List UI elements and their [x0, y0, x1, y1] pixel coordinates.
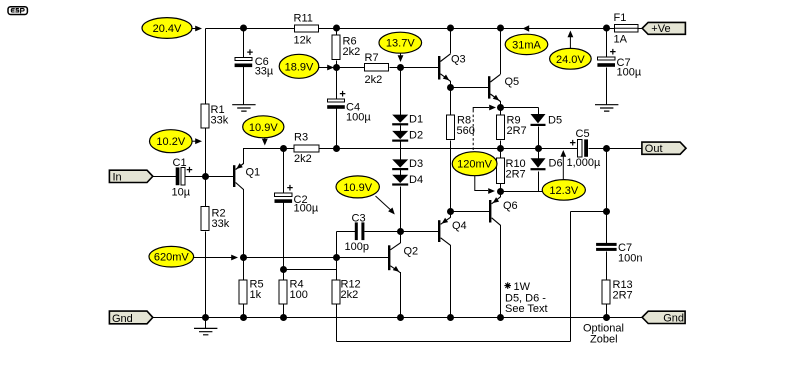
ground symbol below C6 — [232, 105, 255, 111]
svg-text:D6: D6 — [549, 158, 563, 170]
svg-text:560: 560 — [457, 125, 475, 137]
note: D5/D6 rating — [504, 281, 547, 315]
junction: R8 / Q4 emitter / Q6 base — [447, 208, 454, 215]
capacitor C7 100n Zobel — [596, 242, 642, 265]
node 13.7V callout — [398, 53, 404, 62]
wire: R5 leads — [243, 258, 245, 318]
wire: D5 bottom lead — [538, 127, 540, 149]
svg-text:10.2V: 10.2V — [156, 136, 185, 148]
wire: Q1 emitter drop — [243, 148, 245, 164]
wire: R1 bottom / R2 top column — [205, 129, 207, 207]
resistor R1 33k — [201, 104, 229, 128]
svg-text:2R7: 2R7 — [507, 125, 527, 137]
current 31mA — [505, 34, 548, 54]
wire: Q5 collector drop — [500, 28, 502, 74]
wire: ground stem below rail — [205, 318, 207, 329]
svg-text:F1: F1 — [614, 12, 627, 24]
transistor Q3 (NPN) — [438, 54, 466, 82]
svg-text:12k: 12k — [294, 35, 312, 47]
wire: +V top rail — [206, 28, 643, 30]
svg-text:D2: D2 — [409, 130, 423, 142]
wire: Q1 collector drop — [243, 189, 245, 258]
junction: ground rail / Q6 collector — [497, 314, 504, 321]
transistor Q2 (NPN) — [388, 243, 418, 273]
svg-text:R7: R7 — [365, 52, 379, 64]
diode D1 — [392, 114, 423, 126]
wire: D6 leads — [538, 149, 540, 192]
node 10.9V (Q1 emitter) — [243, 116, 284, 138]
svg-text:10.9V: 10.9V — [249, 122, 278, 134]
wire: Q2 collector drop — [400, 231, 402, 243]
svg-text:100n: 100n — [618, 253, 642, 265]
svg-text:120mV: 120mV — [457, 159, 493, 171]
svg-text:C5: C5 — [576, 128, 590, 140]
svg-text:Q3: Q3 — [451, 54, 466, 66]
junction: ground rail / R13 — [603, 314, 610, 321]
svg-text:D1: D1 — [409, 114, 423, 126]
svg-text:+: + — [186, 164, 192, 176]
junction: rail / Q5 collector — [497, 25, 504, 32]
wire: feedback return to output — [337, 212, 607, 342]
wire: Q6 base row — [451, 211, 490, 213]
node 18.9V callout — [318, 65, 334, 71]
junction: rail / fuse / C7 — [603, 25, 610, 32]
svg-text:10µ: 10µ — [172, 187, 191, 199]
svg-text:100µ: 100µ — [294, 203, 319, 215]
junction: ground rail / Q4 collector — [447, 314, 454, 321]
resistor R4 100 — [279, 279, 308, 305]
node 12.3V callout — [560, 150, 566, 179]
wire: C2 leads — [283, 149, 285, 270]
wire: C2/R4 node to R12 column — [284, 269, 337, 271]
wire: C5 to Out terminal — [589, 148, 643, 150]
junction: rail / Q3 collector — [447, 25, 454, 32]
svg-text:100: 100 — [290, 289, 308, 301]
svg-text:R11: R11 — [294, 13, 313, 25]
wire: diode chain column — [400, 68, 402, 232]
svg-text:Q5: Q5 — [505, 76, 520, 88]
wire: C3 leads and R12 top column — [337, 232, 401, 281]
node 120mV — [452, 152, 497, 176]
node 20.4V callout — [192, 26, 202, 32]
junction: output rail / R9 / R10 — [497, 145, 504, 152]
wire: output rail — [244, 148, 578, 150]
capacitor C5 1,000µ — [567, 128, 602, 169]
svg-text:R3: R3 — [294, 132, 308, 144]
note: Optional Zobel — [583, 323, 624, 346]
svg-text:+: + — [570, 138, 576, 150]
wire: C7 filter leads — [606, 29, 608, 105]
svg-text:1W: 1W — [514, 281, 531, 293]
svg-text:12.3V: 12.3V — [549, 185, 578, 197]
resistor R12 2k2 — [332, 279, 361, 305]
wire: Q3 collector drop — [450, 28, 452, 54]
junction: C2 / R4 node — [280, 266, 287, 273]
wire: R6 leads — [336, 29, 338, 68]
junction: Q1 collector / R5 / Q2 base row — [240, 254, 247, 261]
svg-text:100µ: 100µ — [617, 66, 642, 78]
junction: ground rail / R2 — [202, 314, 209, 321]
node 10.9V callout (bias node) — [376, 196, 395, 215]
junction: rail / C6 — [240, 25, 247, 32]
resistor R10 2R7 — [497, 158, 526, 183]
svg-text:D4: D4 — [409, 174, 423, 186]
svg-text:Q4: Q4 — [452, 220, 467, 232]
resistor R11 12k — [294, 13, 319, 47]
wire: C6 leads — [243, 29, 245, 105]
svg-text:Q2: Q2 — [404, 246, 419, 258]
resistor R6 2k2 — [332, 35, 360, 60]
node 13.7V — [379, 32, 422, 53]
svg-text:+Ve: +Ve — [651, 23, 670, 35]
node 120mV callout pointers — [473, 105, 496, 194]
junction: ground rail / Q2 emitter — [397, 314, 404, 321]
wire: Q1 collector to Q2 base row — [244, 257, 389, 259]
node 24.0V — [550, 48, 592, 69]
junction: output rail / C4 — [333, 145, 340, 152]
svg-text:10.9V: 10.9V — [343, 182, 372, 194]
transistor Q5 (NPN) — [488, 74, 519, 101]
wire: Q6 collector drop — [500, 225, 502, 318]
svg-text:1A: 1A — [614, 34, 628, 46]
junction: Q5 emitter / R9 / D5 — [497, 104, 504, 111]
terminal: +Ve — [642, 22, 685, 35]
capacitor C4 100µ — [327, 89, 371, 124]
diode D2 — [392, 130, 423, 142]
node 10.2V — [150, 130, 193, 153]
transistor Q4 (PNP) — [438, 217, 467, 245]
terminal: Gnd (left) — [109, 311, 152, 325]
wire: Q4 emitter drop — [450, 211, 452, 218]
capacitor C6 33µ — [235, 47, 274, 78]
svg-text:Q6: Q6 — [503, 200, 518, 212]
node 10.2V callout — [192, 138, 202, 144]
svg-text:100p: 100p — [345, 241, 369, 253]
svg-text:In: In — [113, 172, 122, 184]
wire: R4 leads — [283, 270, 285, 318]
wire: R10 leads — [500, 149, 502, 192]
wire: Q5 emitter node to D5 — [501, 108, 539, 115]
terminal: Gnd (right) — [642, 311, 685, 324]
wire: Q4 collector drop — [450, 245, 452, 318]
resistor R3 2k2 — [294, 132, 319, 166]
wire: R8 leads — [450, 88, 452, 212]
junction: output rail / D5 / D6 — [535, 145, 542, 152]
svg-text:13.7V: 13.7V — [386, 38, 415, 50]
resistor R8 560 — [447, 115, 475, 140]
wire: Q2 emitter drop — [400, 272, 402, 318]
ground symbol below C7 filter — [595, 105, 618, 111]
svg-text:Gnd: Gnd — [663, 312, 684, 324]
junction: output rail / C2 — [280, 145, 287, 152]
wire: R1 top column — [205, 29, 207, 105]
capacitor C2 100µ — [275, 183, 319, 215]
junction: output drop / feedback / Zobel — [603, 208, 610, 215]
resistor R7 2k2 — [365, 52, 389, 86]
diode D5 — [531, 114, 563, 127]
junction: rail / R6 — [333, 25, 340, 32]
wire: Q3 emitter drop — [450, 81, 452, 88]
junction: R10 / D6 / Q6 emitter — [497, 188, 504, 195]
svg-text:Q1: Q1 — [246, 167, 261, 179]
svg-text:18.9V: 18.9V — [285, 61, 314, 73]
wire: input to Q1 base — [153, 176, 234, 178]
junction: C3 / R12 top — [333, 254, 340, 261]
wire: Q4 base row — [401, 231, 439, 233]
svg-text:D3: D3 — [409, 158, 423, 170]
diode D4 — [392, 174, 423, 186]
wire: C7 Zobel to R13 — [606, 252, 608, 318]
wire: Q3 emitter to Q5 base — [451, 87, 489, 89]
svg-text:2k2: 2k2 — [365, 74, 383, 86]
wire: Q5 emitter drop — [500, 101, 502, 108]
svg-text:33k: 33k — [212, 218, 230, 230]
node 620mV — [149, 246, 194, 267]
ground symbol on ground rail — [194, 328, 217, 334]
resistor R13 2R7 — [602, 279, 633, 304]
wire: C4 leads — [336, 68, 338, 149]
wire: R9 leads — [500, 108, 502, 149]
ESP logo — [8, 7, 27, 15]
terminal: Out — [642, 142, 686, 155]
svg-text:D5: D5 — [548, 115, 562, 127]
diode D6 — [531, 158, 563, 171]
svg-text:See Text: See Text — [505, 303, 548, 315]
svg-text:1k: 1k — [250, 289, 262, 301]
resistor R9 2R7 — [497, 115, 527, 140]
capacitor C3 100p — [345, 213, 369, 254]
svg-text:31mA: 31mA — [512, 39, 541, 51]
svg-text:Out: Out — [645, 143, 663, 155]
node 20.4V — [142, 18, 192, 39]
resistor R5 1k — [239, 279, 264, 305]
transistor Q1 (PNP) — [233, 163, 260, 189]
svg-text:1,000µ: 1,000µ — [567, 157, 602, 169]
svg-text:33µ: 33µ — [255, 66, 274, 78]
junction: R6 / R7 node B — [333, 64, 340, 71]
svg-text:20.4V: 20.4V — [153, 23, 182, 35]
svg-text:620mV: 620mV — [154, 252, 190, 264]
svg-text:100µ: 100µ — [346, 112, 371, 124]
capacitor C7 100µ filter — [597, 47, 641, 79]
current 31mA arrowhead on rail — [523, 25, 530, 31]
wire: ground rail — [153, 317, 643, 319]
svg-text:Gnd: Gnd — [112, 313, 133, 325]
junction: ground rail / R4 — [280, 314, 287, 321]
transistor Q6 (PNP) — [489, 197, 518, 226]
junction: Q3 emitter / R8 / Q5 base — [447, 84, 454, 91]
svg-text:2k2: 2k2 — [343, 46, 361, 58]
junction: diode chain / C3 / Q2 collector / Q4 base — [397, 228, 404, 235]
wire: Q6 emitter row — [501, 191, 565, 193]
wire: R12 bottom lead — [336, 305, 338, 342]
svg-text:33k: 33k — [211, 115, 229, 127]
node 10.9V callout (Q1 emitter) — [262, 137, 268, 146]
svg-text:2k2: 2k2 — [294, 153, 312, 165]
svg-text:2k2: 2k2 — [341, 289, 359, 301]
wire: node B row R6/R7 to Q3 base — [337, 67, 439, 69]
wire: Q6 emitter drop — [500, 191, 502, 197]
svg-text:2R7: 2R7 — [613, 290, 633, 302]
svg-text:2R7: 2R7 — [506, 169, 526, 181]
node 18.9V — [279, 54, 319, 78]
svg-text:Zobel: Zobel — [590, 334, 618, 346]
node 12.3V — [542, 180, 585, 201]
node 620mV callout — [193, 255, 238, 261]
node 24.0V callout — [568, 31, 574, 49]
resistor R2 33k — [201, 207, 230, 231]
terminal: In — [109, 170, 152, 183]
junction: Q1 base / R1 / R2 — [202, 173, 209, 180]
wire: output node down / Zobel top — [606, 149, 608, 244]
junction: ground rail / R5 — [240, 314, 247, 321]
svg-text:24.0V: 24.0V — [556, 54, 585, 66]
fuse F1 1A — [614, 12, 639, 46]
wire: R2 bottom column — [205, 232, 207, 318]
junction: output rail / C5 / Zobel — [603, 145, 610, 152]
node 10.9V (bias node) — [336, 176, 379, 198]
junction: R7 / Q3 base / diode chain — [397, 64, 404, 71]
capacitor C1 10µ — [172, 157, 193, 199]
diode D3 — [392, 158, 423, 170]
